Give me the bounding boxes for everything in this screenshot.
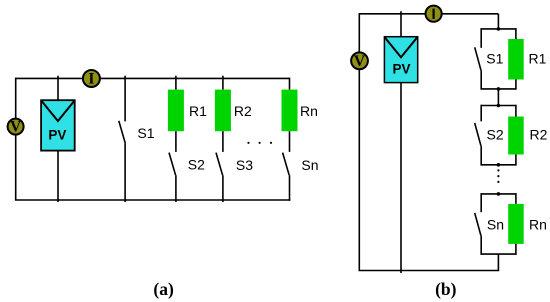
wire bottom bus (b) xyxy=(359,270,500,272)
svg-text:R2: R2 xyxy=(530,127,548,143)
svg-text:(a): (a) xyxy=(153,279,174,299)
wire PV branch top (b) xyxy=(400,11,402,37)
wire R1 to S2 (a) xyxy=(175,131,177,152)
switch S1 branch (a) xyxy=(119,76,126,202)
resistor Rn (a) xyxy=(282,90,298,132)
svg-text:S1: S1 xyxy=(137,125,154,141)
PV panel (a) xyxy=(41,100,75,150)
PV panel (b) xyxy=(384,37,417,83)
wire pairn top bar (b) xyxy=(481,193,516,195)
switch S2 (a) xyxy=(169,153,176,202)
wire PV branch top (a) xyxy=(57,76,59,101)
voltmeter V (a) xyxy=(8,119,24,136)
wire R2 top lead (b) xyxy=(515,105,517,117)
switch Sn (b) xyxy=(475,193,482,255)
wire R1 top lead (b) xyxy=(515,28,517,39)
wire R1 bottom lead (b) xyxy=(515,80,517,90)
wire R2 to S3 (a) xyxy=(222,131,224,152)
svg-text:Sn: Sn xyxy=(301,157,318,173)
ammeter I (a) xyxy=(83,70,100,88)
node pair2 bottom junction (b) xyxy=(497,163,501,167)
resistor R1 (b) xyxy=(508,39,524,80)
wire left side (a) xyxy=(15,78,17,200)
wire pair1 bottom bar (b) xyxy=(481,88,516,90)
resistor R2 (b) xyxy=(508,117,524,155)
switch Sn (a) xyxy=(283,153,290,201)
svg-text:R1: R1 xyxy=(529,50,547,66)
resistor R1 (a) xyxy=(168,90,184,132)
svg-text:R2: R2 xyxy=(234,103,252,119)
svg-text:S3: S3 xyxy=(236,157,253,173)
svg-text:Rn: Rn xyxy=(300,103,318,119)
svg-text:S1: S1 xyxy=(486,50,503,66)
wire top bus (a) xyxy=(16,77,290,79)
wire Rn bottom lead (b) xyxy=(515,244,517,255)
wire R2 branch top (a) xyxy=(222,76,224,90)
wire top bus (b) xyxy=(359,13,498,15)
ellipsis dots (a) xyxy=(247,142,272,144)
svg-text:Rn: Rn xyxy=(529,217,547,233)
wire PV branch bottom (b) xyxy=(400,83,402,273)
svg-text:Sn: Sn xyxy=(487,217,504,233)
node pair1 top junction (b) xyxy=(497,27,501,31)
wire R1 branch top (a) xyxy=(175,76,177,90)
node pair2 top junction (b) xyxy=(497,104,501,108)
resistor Rn (b) xyxy=(508,204,524,244)
node pairn top junction (b) xyxy=(497,192,501,196)
svg-text:S2: S2 xyxy=(188,157,205,173)
wire left side (b) xyxy=(358,13,360,271)
wire pairn bottom bar (b) xyxy=(481,253,516,255)
wire Rn to Sn (a) xyxy=(289,131,291,152)
ammeter I (b) xyxy=(426,6,442,22)
svg-text:S2: S2 xyxy=(487,127,504,143)
svg-text:(b): (b) xyxy=(435,279,457,299)
wire right chain top (b) xyxy=(497,14,499,29)
wire PV branch bottom (a) xyxy=(57,151,59,202)
wire chain pairn to bottom bus (b) xyxy=(497,254,499,270)
svg-text:R1: R1 xyxy=(189,103,207,119)
wire bottom bus (a) xyxy=(15,199,290,201)
wire chain pair1 to pair2 (b) xyxy=(497,89,499,106)
svg-text:PV: PV xyxy=(392,61,410,76)
wire Rn top lead (b) xyxy=(515,193,517,204)
svg-text:V: V xyxy=(354,53,366,70)
voltmeter V (b) xyxy=(351,52,368,70)
switch S2 (b) xyxy=(475,105,482,166)
ellipsis dots vertical (b) xyxy=(497,169,499,183)
node pair1 bottom junction (b) xyxy=(497,87,501,91)
svg-text:V: V xyxy=(10,119,22,136)
switch S3 (a) xyxy=(216,153,223,202)
svg-text:I: I xyxy=(88,71,94,88)
svg-text:PV: PV xyxy=(48,128,66,143)
wire Rn branch top / right edge (a) xyxy=(289,78,291,90)
wire R2 bottom lead (b) xyxy=(515,155,517,166)
wire pair2 top bar (b) xyxy=(481,105,516,107)
wire pair1 top bar (b) xyxy=(481,28,516,30)
wire pair2 bottom bar (b) xyxy=(481,164,516,166)
resistor R2 (a) xyxy=(215,90,231,132)
switch S1 (b) xyxy=(475,28,482,90)
